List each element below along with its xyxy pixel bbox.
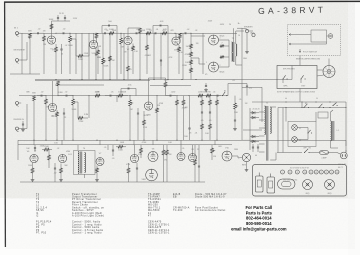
capacitor C18 railB right (216, 95, 218, 97)
transformer T1 secondary coil (270, 107, 271, 133)
resistor R46 (140, 148, 143, 153)
wire OT secondary up (235, 31, 237, 44)
node dots bus B (33, 140, 34, 141)
resistor R49 osc grid2 (166, 150, 169, 155)
switch S6 speaker sw 2 (301, 79, 302, 80)
jack J5 input ch2 1 (16, 102, 19, 105)
capacitor C1 input cap (36, 32, 38, 34)
node dots power lines (286, 102, 287, 103)
ground C22 (234, 127, 236, 129)
transformer T1 power primary coil (265, 106, 266, 135)
resistor R1 grid stopper (29, 33, 32, 38)
wire row A lower bus segment (10, 73, 40, 75)
resistor R22 grid leak ch2 (45, 99, 48, 104)
triode V2A (124, 36, 132, 44)
resistor R25 mix ch2 (78, 117, 83, 120)
svg-text:T1: T1 (36, 194, 40, 196)
resistor R48 osc grid (162, 150, 165, 155)
wire box to speaker 2 (317, 75, 324, 76)
wire footswitch line 1 (289, 34, 311, 36)
resistor R27 railB series (118, 94, 123, 97)
wire rowB bus to PT (345, 140, 347, 146)
wire AC bottom line (277, 152, 302, 154)
capacitor can CC2 (267, 177, 275, 193)
svg-text:CEN-11-13714-1: CEN-11-13714-1 (148, 230, 170, 232)
wire top signal rail row A (19, 32, 237, 34)
svg-text:T3: T3 (36, 199, 40, 201)
tube socket TS1 (281, 170, 285, 174)
resistor R34 railB right2 (206, 94, 211, 97)
resistor R38 lower1 (201, 124, 204, 129)
svg-text:PT Driver Transformer: PT Driver Transformer (72, 198, 101, 201)
tube socket TS7 (319, 170, 323, 174)
capacitor C9 coupling 3 (184, 32, 186, 34)
capacitor C5 bass (104, 32, 106, 34)
svg-text:EB: EB (173, 197, 177, 199)
wire feedback line (246, 29, 248, 31)
potentiometer P4 tone ch2 (129, 100, 132, 106)
wire V10 to tank (232, 155, 238, 157)
resistor R45 mid (118, 145, 123, 148)
tube socket TS3 (295, 170, 299, 174)
label foot switch arrow (299, 49, 301, 53)
wire power top line 2 (278, 107, 346, 109)
tube socket TS10 (335, 170, 339, 174)
speaker SPK1 (323, 66, 335, 78)
triode V8C (177, 153, 185, 161)
svg-text:CEN-A470: CEN-A470 (148, 221, 162, 224)
svg-text:L1: L1 (36, 205, 40, 207)
wire row A mid bus segment (55, 84, 104, 86)
node dots rail A (56, 33, 57, 34)
capacitor C29 filter 2 (257, 146, 259, 148)
wire ladder3 down (216, 112, 218, 140)
resistor R39 lower2 (209, 124, 212, 129)
wire screens join (228, 43, 230, 60)
wire row A drop 2 (75, 33, 77, 74)
svg-text:Parts is Parts: Parts is Parts (246, 210, 273, 215)
svg-text:Control - 500K Audio: Control - 500K Audio (72, 226, 100, 229)
jack J4 ext speaker (252, 33, 255, 36)
svg-text:CEN-11-13756-1: CEN-11-13756-1 (148, 224, 170, 226)
ground jack2 (22, 128, 24, 130)
wire row A drop 9 (139, 33, 141, 79)
svg-text:Fuse Post/Socket: Fuse Post/Socket (195, 206, 218, 209)
potentiometer P2 tone ch1 (120, 38, 123, 44)
wire row A drop 3 (81, 33, 83, 79)
wire V5 plate to OT (219, 66, 230, 68)
ground trem1 (32, 178, 34, 180)
wire row A drop 14 (202, 33, 204, 74)
wire drop x117 (116, 96, 118, 102)
resistor R15 cathode (178, 47, 181, 52)
svg-text:CEN-11-13750-1: CEN-11-13750-1 (148, 233, 170, 235)
wire B+ node A (52, 20, 71, 22)
switch S5b lamp switch (308, 133, 309, 134)
svg-text:P7, P10: P7, P10 (36, 233, 47, 235)
wire tone bridge span (102, 25, 117, 27)
wire tank down (246, 162, 248, 168)
capacitor C7 (154, 32, 156, 34)
svg-text:Control - 2.5 meg Audio: Control - 2.5 meg Audio (72, 229, 104, 232)
wire HV bus vertical (241, 28, 243, 140)
footswitch button (328, 34, 333, 39)
wire row A drop 5 (102, 33, 104, 79)
plug PL1 AC plug (340, 152, 347, 159)
wire J6 link (21, 128, 27, 130)
svg-text:802-464-0014: 802-464-0014 (246, 216, 272, 221)
capacitor C17 (188, 127, 190, 129)
svg-text:TS-16MP: TS-16MP (148, 194, 160, 196)
wire rowC left drop (17, 140, 19, 160)
capacitor can CC1 (256, 176, 264, 192)
border frame left line (4, 2, 7, 248)
tube socket TS8 (324, 170, 328, 174)
wire bus bottom join (242, 139, 252, 141)
triode V8B oscillator large (146, 169, 158, 181)
resistor R53 mid drop (109, 56, 112, 61)
triode V8A (148, 152, 158, 162)
capacitor C23 row C left (34, 147, 36, 149)
capacitor C36 ground clustr (205, 85, 207, 87)
wire V9 plate (192, 145, 194, 154)
resistor R26 rail series (95, 94, 100, 97)
wire row C top rail (18, 144, 232, 146)
wire T4 leads (77, 145, 79, 150)
wire V3A plate (52, 81, 54, 103)
triode V9 reverb driver (189, 154, 197, 162)
wire V2A plate (127, 28, 129, 36)
svg-text:A-100 Pilot Light (Red): A-100 Pilot Light (Red) (72, 212, 102, 215)
svg-text:MA-5500: MA-5500 (148, 209, 160, 212)
wire lamp leads (297, 127, 308, 129)
potentiometer P5 depth (234, 103, 237, 109)
capacitor C34 decoupling (57, 17, 59, 19)
potentiometer P6 mid (102, 58, 105, 64)
svg-text:Reverb Transformer: Reverb Transformer (72, 201, 98, 204)
svg-text:I2: I2 (36, 216, 39, 218)
wire V3B plate (148, 78, 150, 101)
resistor R33 railB right (198, 94, 203, 97)
pilot lamp I2 (292, 137, 298, 143)
resistor R37 ladder3 (216, 100, 219, 105)
capacitor C12 coupling ch2 (65, 95, 67, 97)
wire reverb bus (261, 87, 263, 122)
resistor R35 ladder1 (201, 100, 204, 105)
wire rect mid horizontal (243, 129, 262, 131)
wire V2B plate up (175, 33, 177, 36)
ground mid right (205, 88, 207, 90)
wire pot P1 wiper to V2 grid (73, 38, 76, 40)
border frame top line (4, 0, 360, 3)
wire T1 lead top (270, 106, 276, 108)
resistor R47 cathode (127, 168, 130, 173)
resistor R7 cathode (97, 50, 100, 55)
ground trem2 (60, 178, 62, 180)
triode V1B (89, 40, 97, 48)
potentiometer P7 reverb mix (211, 148, 214, 153)
ground speaker jack (246, 50, 248, 52)
svg-text:email info@guitar-parts.com: email info@guitar-parts.com (231, 227, 287, 232)
svg-text:S1,2,3,4: S1,2,3,4 (36, 207, 47, 209)
svg-text:Filter Choke: Filter Choke (72, 204, 89, 207)
wire jack J2 to stage (21, 59, 27, 61)
wire footswitch feed (299, 56, 301, 66)
tube socket TS2 (288, 170, 292, 174)
diode D4 rectifier (252, 140, 255, 143)
capacitor C33 mid drop2 (160, 59, 162, 61)
capacitor C10 ch2 input (40, 95, 42, 97)
wire plug top lead (345, 150, 347, 153)
svg-text:EIA,B: EIA,B (173, 193, 181, 196)
tube socket TS6 (314, 170, 318, 174)
tube socket TS5 (309, 170, 313, 174)
wire power top line 1 (252, 101, 346, 103)
svg-text:For Parts Call: For Parts Call (245, 205, 272, 210)
resistor R36 ladder2 (209, 100, 212, 105)
wire V7B plate (134, 145, 136, 154)
svg-text:800-590-0014: 800-590-0014 (246, 221, 272, 226)
svg-text:P2, P5: P2, P5 (36, 224, 45, 226)
resistor R40 tremolo (44, 148, 49, 151)
resistor R20 screen lower (220, 56, 224, 59)
ground reverb return (96, 178, 98, 180)
diode D2 rectifier (252, 116, 255, 119)
wire box to speaker 1 (317, 69, 323, 71)
capacitor C13 bridgeB (127, 88, 129, 90)
capacitor C14 railB (109, 95, 111, 97)
wire row A drop 8 (123, 33, 125, 79)
wire row A drop 12 (167, 33, 169, 79)
capacitor C22 (234, 119, 236, 121)
capacitor C26 (136, 167, 138, 169)
svg-text:T2: T2 (36, 197, 40, 199)
resistor R10 cathode (132, 46, 135, 51)
wire row A drop 11 (160, 33, 162, 79)
transformer T4 primary coil (78, 152, 79, 174)
chassis panel outline (253, 165, 347, 197)
svg-text:Switch - off, standby, on: Switch - off, standby, on (72, 206, 105, 209)
transformer T1 core (266, 106, 268, 161)
wire PI to lower grid (191, 57, 199, 59)
svg-text:TC-300: TC-300 (173, 210, 183, 212)
svg-text:TS-D3521: TS-D3521 (148, 199, 161, 201)
svg-text:T4: T4 (36, 202, 40, 204)
switch S4 polarity switch (333, 105, 334, 106)
resistor R9 plate (139, 28, 142, 33)
wire T1 taps left (259, 111, 265, 113)
resistor R2 grid leak (43, 36, 46, 41)
svg-text:P3: P3 (36, 230, 40, 232)
resistor R28 plate V3B (164, 82, 167, 87)
wire fuse to plug (329, 152, 338, 154)
capacitor C6 coupling 2 (135, 32, 137, 34)
reverb tank RV1 motor circle (242, 153, 250, 161)
triode V10 reverb output (222, 151, 232, 161)
wire row B bottom bus (18, 139, 346, 141)
capacitor C28 filter 1 (252, 146, 254, 148)
wire row A drop 7 (116, 33, 118, 79)
svg-text:AC Convenience Outlet: AC Convenience Outlet (195, 209, 226, 212)
triode V6A tremolo osc (30, 154, 38, 162)
transformer T4 core lines (80, 152, 82, 174)
resistor R14 plate load (179, 33, 182, 38)
wire bridgeB span (121, 88, 136, 90)
wire footswitch button lead (327, 35, 329, 37)
triode V7B (130, 154, 138, 162)
capacitor C16 to tremolo (169, 95, 171, 97)
wire row C bottom bus (20, 181, 205, 183)
switch S1 tremolo switch (222, 95, 223, 96)
capacitor C37 jack2 cluster (22, 123, 24, 125)
footswitch inner rect (311, 30, 327, 42)
jack J3 speaker jack (245, 29, 248, 32)
capacitor C25 mid (112, 149, 114, 151)
switch S5 speaker sw 1 (283, 79, 284, 80)
capacitor C11 bypass ch2 (63, 112, 65, 114)
wire V1 plate up (51, 24, 53, 35)
svg-text:Diode - 500 MA 1N-4-67: Diode - 500 MA 1N-4-67 (195, 193, 227, 196)
switch S3 standby switch (319, 107, 320, 108)
svg-text:Control - 1 meg, Audio: Control - 1 meg, Audio (72, 223, 102, 226)
wire V1B plate (93, 33, 95, 40)
wire bus to railC ticks (33, 140, 35, 145)
resistor R43 cathode trem2 (60, 168, 63, 173)
wire row A drop 13 (182, 33, 184, 79)
capacitor C4 treble (108, 25, 110, 27)
capacitor C15 V3B (137, 112, 139, 114)
wire trem bridge right (228, 83, 247, 85)
svg-text:Switches - SPST: Switches - SPST (72, 209, 94, 212)
tube socket TS4 (303, 170, 307, 174)
svg-text:Output Transformer: Output Transformer (72, 196, 98, 199)
capacitor C24 osc cap (54, 167, 56, 169)
resistor R13 series2 (162, 32, 167, 35)
wire B+ feed bus row A (35, 79, 292, 81)
capacitor C20 ladder1 (201, 111, 203, 113)
svg-text:Power Transformer: Power Transformer (72, 193, 97, 196)
capacitor C27 rowC right (198, 165, 200, 167)
filter choke L1 core (332, 121, 334, 141)
resistor R4 cathode V1 (55, 47, 58, 52)
triode V3B (144, 102, 152, 110)
wire bus A below segment (150, 85, 191, 87)
diode D1 rectifier (252, 111, 255, 114)
resistor R16 PI top (190, 44, 193, 49)
wire trem bus down (291, 66, 293, 80)
triode V7A reverb return (96, 158, 104, 166)
resistor R32 (182, 100, 185, 105)
transformer T2 output primary (232, 42, 233, 52)
pentode V4 output upper (209, 35, 219, 45)
transformer lug TL1 (278, 179, 296, 189)
wire row A drop 10 (153, 33, 155, 79)
resistor R24 cathode ch2 (56, 112, 59, 117)
terminal strip TB1 (318, 112, 328, 118)
wire choke leads (330, 112, 332, 121)
triode V3A ch2 (48, 103, 56, 111)
transformer T2 core (232, 42, 234, 62)
transformer T4 secondary coil (85, 153, 86, 173)
svg-text:MA-770.1: MA-770.1 (148, 206, 161, 209)
tube socket big B2 (325, 180, 335, 190)
resistor R3 plate load V1 (50, 24, 53, 29)
triode V2B (172, 37, 180, 45)
resistor R54 mid drop (127, 66, 130, 71)
capacitor C2 cathode bypass (60, 48, 62, 50)
resistor R21 grid ch2 (33, 96, 36, 101)
switch S2 line switch (304, 107, 305, 108)
tube socket TS9 (330, 170, 334, 174)
wire rect vertical (249, 108, 251, 150)
capacitor C3 coupling (62, 32, 64, 34)
tube socket big B1 (303, 180, 313, 190)
wire AC mid (310, 152, 320, 154)
wire spkbox down (299, 89, 301, 103)
wire drop x89 (88, 96, 90, 118)
resistor R44 reverb (96, 168, 99, 173)
capacitor C8 bridge2 (159, 25, 161, 27)
svg-text:P1,P10,P14: P1,P10,P14 (36, 222, 52, 224)
potentiometer P3 volume ch2 (72, 99, 75, 105)
resistor R11 series (146, 32, 151, 35)
svg-text:I1: I1 (36, 213, 39, 215)
node dots bus A (55, 79, 56, 80)
diode D3 rectifier (252, 135, 255, 138)
filter choke L1 coil (331, 121, 332, 141)
resistor R41 osc (48, 155, 51, 160)
wire PI to grids (191, 35, 196, 37)
resistor R19 screen upper (220, 45, 224, 48)
wire footswitch line 2 (289, 43, 327, 45)
svg-text:Control - 1 meg, Audio: Control - 1 meg, Audio (72, 232, 102, 235)
resistor R17 PI mid (190, 52, 193, 57)
pilot lamp I1 (292, 125, 298, 131)
wire OT secondary down (235, 56, 237, 65)
capacitor C32 mid drop (95, 53, 97, 55)
resistor R29 cathode V3B (143, 120, 146, 125)
svg-text:CEN-A475: CEN-A475 (148, 226, 162, 229)
capacitor C19 footswitch cap (246, 85, 248, 87)
svg-text:TS-PM47: TS-PM47 (148, 197, 160, 199)
svg-text:Control - 500K, Audio: Control - 500K, Audio (72, 221, 101, 224)
resistor R12 shunt (146, 45, 149, 50)
speaker connection box (277, 66, 317, 89)
wire plate join (149, 77, 166, 79)
jack J1 input 1 (16, 32, 19, 35)
svg-text:MS-250: MS-250 (148, 205, 158, 207)
svg-text:P4: P4 (36, 227, 40, 229)
title GA-38RVT handwritten (258, 5, 326, 16)
resistor R31 trem depth (176, 100, 179, 105)
svg-text:47: 47 (148, 216, 152, 218)
svg-text:A-100 Pilot Light (Clear): A-100 Pilot Light (Clear) (72, 215, 104, 218)
resistor R18 PI bottom (190, 60, 193, 65)
node dots rail B (46, 95, 47, 96)
wire drop x190 (189, 96, 191, 122)
transformer T4 reverb box (74, 151, 96, 175)
transformer T2 secondary (236, 44, 237, 56)
pentode V5 output lower (209, 62, 219, 72)
capacitor C35 decoupling (64, 17, 66, 19)
potentiometer P1 volume ch1 (69, 36, 72, 42)
paper grain overlay (5, 3, 355, 199)
capacitor C21 ladder2 (209, 111, 211, 113)
wire OT top connection (237, 27, 242, 29)
svg-text:41: 41 (148, 213, 152, 215)
fuse F1 (320, 151, 329, 155)
wire T1 lead bottom (270, 159, 276, 161)
